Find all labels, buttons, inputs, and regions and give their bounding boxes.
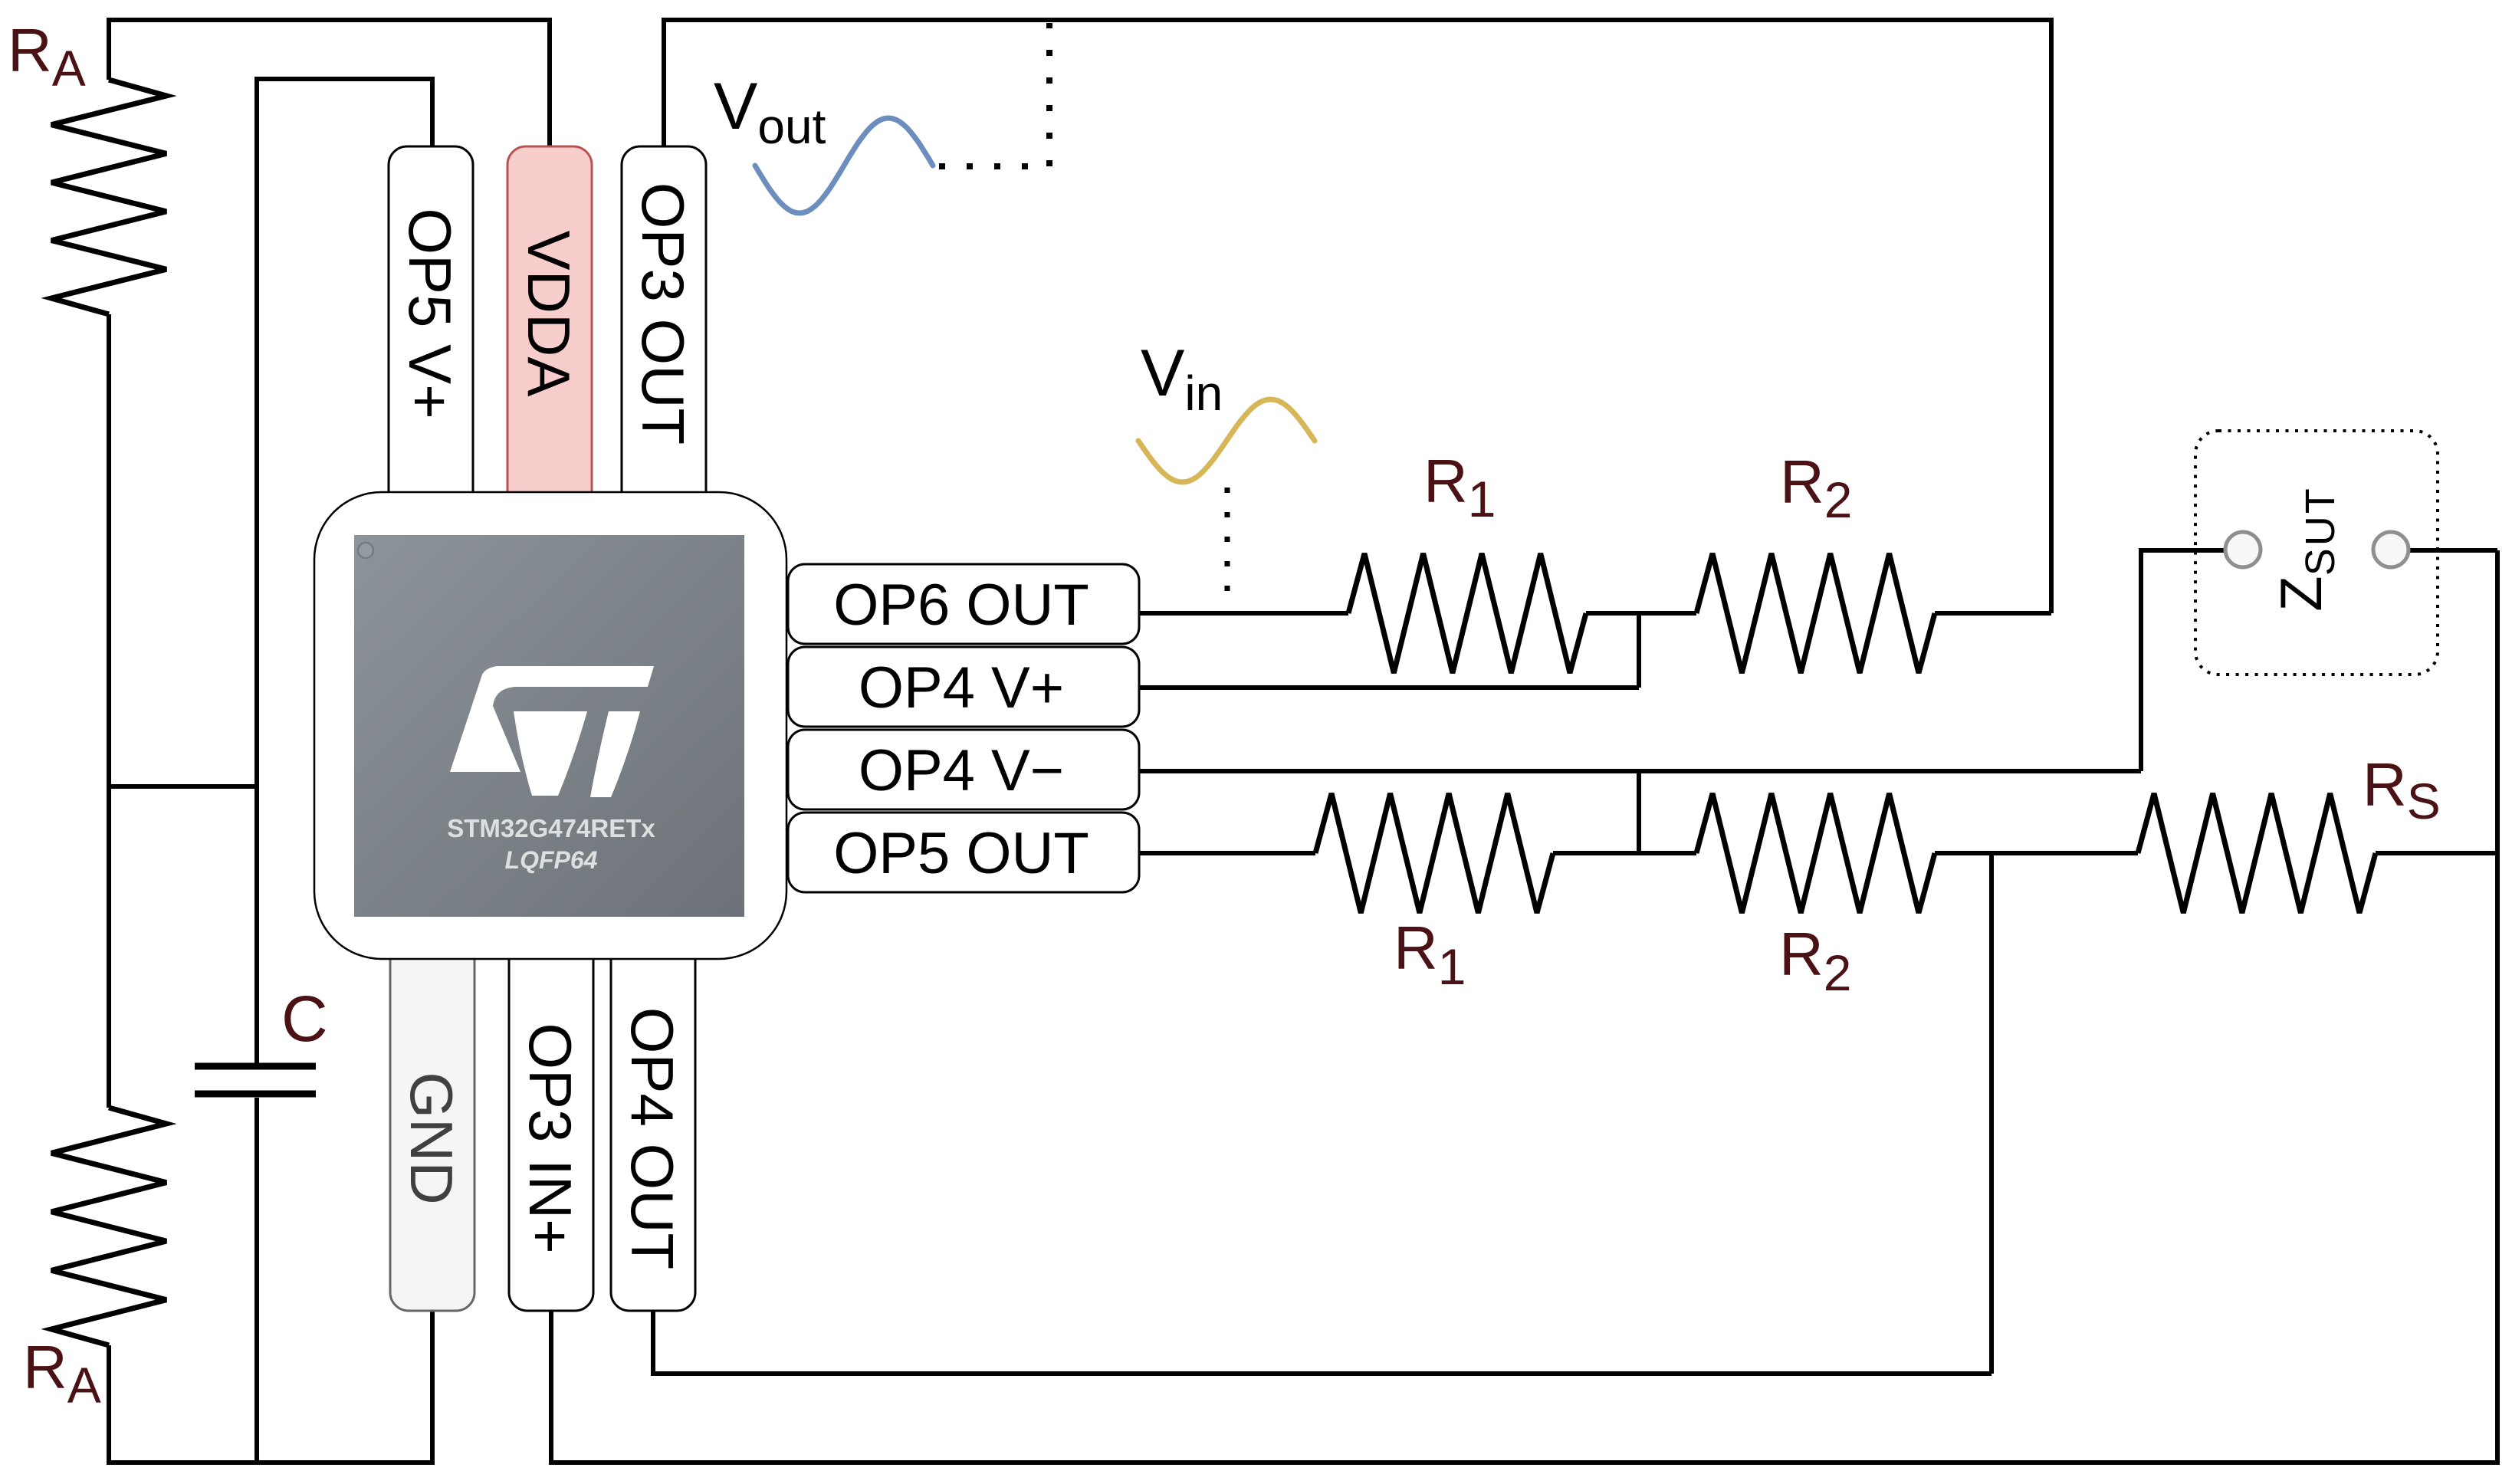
svg-text:OP3 IN+: OP3 IN+ [517, 1023, 584, 1253]
svg-text:OP6 OUT: OP6 OUT [833, 573, 1089, 638]
svg-text:OP5 OUT: OP5 OUT [833, 821, 1089, 886]
svg-text:OP4 V+: OP4 V+ [859, 655, 1064, 721]
svg-text:C: C [281, 983, 328, 1055]
svg-text:OP4 V−: OP4 V− [859, 738, 1064, 803]
svg-text:STM32G474RETx: STM32G474RETx [447, 814, 655, 842]
svg-text:OP3 OUT: OP3 OUT [629, 182, 697, 445]
svg-text:OP5 V+: OP5 V+ [396, 208, 464, 419]
svg-text:GND: GND [398, 1072, 465, 1204]
svg-text:LQFP64: LQFP64 [505, 846, 598, 874]
svg-text:OP4 OUT: OP4 OUT [619, 1007, 686, 1269]
svg-text:VDDA: VDDA [515, 231, 583, 397]
